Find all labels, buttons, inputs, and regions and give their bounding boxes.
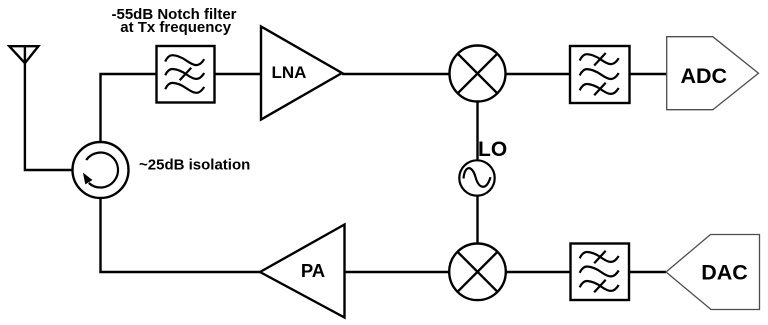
svg-text:DAC: DAC [701, 261, 748, 285]
svg-text:PA: PA [301, 260, 325, 281]
svg-text:LO: LO [478, 138, 507, 161]
svg-text:~25dB isolation: ~25dB isolation [139, 156, 250, 173]
svg-text:LNA: LNA [272, 63, 307, 82]
svg-text:ADC: ADC [681, 64, 728, 88]
svg-text:at Tx frequency: at Tx frequency [120, 19, 232, 36]
